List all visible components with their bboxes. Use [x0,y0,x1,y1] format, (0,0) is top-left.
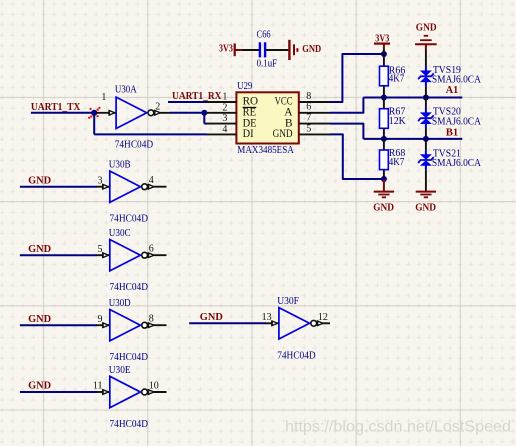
svg-text:12K: 12K [389,115,406,127]
resistor R67 [380,109,389,129]
svg-text:4: 4 [149,175,154,186]
junction (UART1_TX node) [91,110,97,116]
wire UART1_TX [31,112,94,114]
wire GND to U30B [20,186,97,188]
wire UART1_RX [168,101,207,103]
svg-text:3V3: 3V3 [219,43,233,55]
svg-text:8: 8 [306,91,311,102]
wire GND to U30D [20,324,97,326]
svg-text:GND: GND [28,243,51,255]
TVS diode TVS20 [420,112,432,118]
svg-text:10: 10 [149,381,159,392]
svg-text:2: 2 [155,102,160,113]
svg-text:U30B: U30B [109,159,131,171]
svg-text:6: 6 [149,244,154,255]
svg-text:MAX3485ESA: MAX3485ESA [237,144,294,156]
wire U30A out to RE [170,112,204,114]
svg-text:8: 8 [149,314,154,325]
svg-text:SMAJ6.0CA: SMAJ6.0CA [432,157,481,169]
inverter U30F [265,322,278,324]
pin 6 stub (A) [299,112,330,114]
ground (R column) [374,191,394,193]
svg-text:UART1_RX: UART1_RX [172,90,222,102]
wire C66 left [242,49,259,51]
svg-text:https://blog.csdn.net/LostSpee: https://blog.csdn.net/LostSpeed [285,419,511,436]
svg-text:5: 5 [306,123,311,134]
wire GND to U30C [20,254,97,256]
svg-text:74HC04D: 74HC04D [110,281,149,293]
pin 3 stub (DE) [207,123,237,125]
wire GND to TVS19 [425,50,427,67]
pin 1 stub (RO) [207,101,237,103]
no-ERC marker (red X) [89,108,91,110]
svg-text:74HC04D: 74HC04D [277,349,316,361]
svg-text:U30F: U30F [277,295,299,307]
svg-text:74HC04D: 74HC04D [115,139,154,151]
wire TVS20 to B1 row [425,128,427,139]
wire R68 to GND port [383,179,385,192]
wire RE-DE (vertical) [203,113,205,124]
svg-text:GND: GND [373,201,394,213]
chip U29 body [236,92,298,143]
resistor R68 [380,150,389,170]
inverter U30A [97,112,116,114]
svg-text:1: 1 [222,92,227,103]
svg-text:GND: GND [28,174,51,186]
svg-text:7: 7 [306,113,311,124]
ground (TVS column) [416,191,436,193]
wire UART1_TX to DI (vertical) [93,113,95,135]
svg-text:3: 3 [222,113,227,124]
junction (R66/A1) [381,95,387,101]
svg-text:U30C: U30C [109,227,131,239]
TVS diode TVS19 [420,71,432,77]
pin 7 stub (B) [299,123,330,125]
svg-text:DI: DI [243,128,254,140]
wire B1 row [363,138,462,140]
wire TVS21 top [425,139,427,150]
svg-text:SMAJ6.0CA: SMAJ6.0CA [432,74,481,86]
wire GND net (pin5) [330,134,384,179]
svg-text:74HC04D: 74HC04D [110,418,149,430]
junction (RE/DE node) [201,110,207,116]
junction (R68/GND) [381,176,387,182]
svg-text:GND: GND [200,311,223,323]
ground (C66 rail) [288,40,290,60]
svg-text:UART1_TX: UART1_TX [31,101,81,113]
svg-text:6: 6 [306,102,311,113]
wire C66 right [265,49,288,51]
wire A1 to R67 [383,98,385,109]
capacitor C66 [259,42,261,57]
junction (R67/B1) [381,136,387,142]
pin 8 stub (VCC) [299,101,330,103]
wire B1 to R68 [383,139,385,150]
svg-text:74HC04D: 74HC04D [110,351,149,363]
svg-text:0.1uF: 0.1uF [257,58,278,70]
svg-text:GND: GND [273,128,293,140]
junction (3V3/VCC node) [381,51,387,57]
svg-text:U30A: U30A [115,84,137,96]
svg-text:U29: U29 [237,80,252,92]
wire DI row [94,133,206,135]
svg-text:74HC04D: 74HC04D [110,213,149,225]
svg-text:11: 11 [93,381,103,392]
svg-text:GND: GND [28,380,51,392]
svg-text:3: 3 [98,175,103,186]
svg-text:U30E: U30E [109,364,131,376]
svg-text:1: 1 [101,92,106,103]
svg-text:9: 9 [98,314,103,325]
svg-text:4: 4 [222,124,227,135]
wire A1 row [363,97,462,99]
svg-text:5: 5 [98,244,103,255]
svg-text:GND: GND [302,43,321,55]
wire GND to U30E [20,391,97,393]
wire GND to U30F [189,322,266,324]
wire TVS21 to GND port [425,170,427,192]
junction (TVS20/B1) [423,136,429,142]
wire R67 to B1 row [383,128,385,139]
svg-text:GND: GND [415,201,436,213]
svg-text:C66: C66 [257,28,271,40]
pin 4 stub (DI) [207,133,237,135]
TVS diode TVS21 [420,154,432,160]
svg-text:U30D: U30D [109,297,131,309]
pin 5 stub (GND) [299,133,330,135]
junction (TVS19/A1) [423,95,429,101]
inverter U30C [96,254,109,256]
inverter U30B [96,186,109,188]
svg-text:12: 12 [318,312,328,323]
wire 3V3 to R66 [383,49,385,66]
inverter U30D [96,324,109,326]
svg-text:4K7: 4K7 [389,73,405,85]
svg-text:2: 2 [222,102,227,113]
wire A net [330,98,363,113]
svg-text:4K7: 4K7 [389,156,405,168]
pin 2 stub (RE) [207,112,236,114]
resistor R66 [380,66,389,86]
svg-text:GND: GND [416,22,437,34]
wire TVS19 to A1 row [425,86,427,97]
svg-text:GND: GND [28,313,51,325]
wire VCC net [330,54,384,102]
svg-text:13: 13 [262,312,272,323]
wire R68 bottom [383,170,385,179]
svg-text:A1: A1 [446,84,459,96]
inverter U30E [96,391,109,393]
wire B net [330,124,363,139]
svg-text:B1: B1 [446,126,459,138]
wire TVS20 top [425,98,427,109]
wire R66 to A1 row [383,86,385,98]
